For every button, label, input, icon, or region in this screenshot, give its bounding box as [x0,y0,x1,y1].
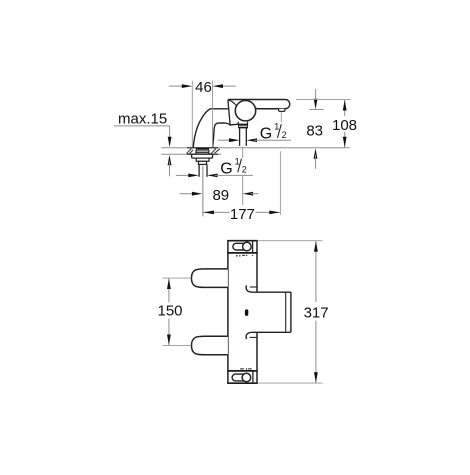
dim 83 arrow up [314,148,318,159]
dim 317 ext top [258,240,323,242]
deck top line [161,147,350,149]
spout bottom tick [250,336,257,338]
dim 46 ext left [191,81,193,148]
dim 317 arrow up [314,241,318,252]
aerator nub [279,109,285,112]
dim 317 line lower [315,321,317,384]
spout top tick [250,286,257,288]
svg-text:317: 317 [304,305,329,322]
svg-text:G: G [220,161,232,178]
G12 upper slash [278,124,282,138]
svg-text:108: 108 [332,117,357,134]
G12 upper right line [254,139,291,141]
dim 317 line upper [315,241,317,302]
bottom switch stadium [232,374,250,381]
pipe2 left line [239,128,241,146]
G12 lower left line [176,174,192,176]
dim 108 line lower [344,132,346,148]
dim 46 line left [169,85,185,87]
dim 108 arrow up [343,100,347,111]
dim 150 line upper [168,278,170,302]
svg-text:89: 89 [212,187,229,204]
dim 177 ext right lower [279,151,281,215]
bottom scale dashes [240,368,252,370]
dim 150 line lower [168,319,170,346]
shank right edge [208,150,210,154]
lever spout bar [228,100,290,109]
body tick mark [245,309,248,316]
body right edge upper [256,241,258,293]
spout tip inner line [285,293,287,332]
bottom cap bottom edge [227,382,258,384]
faucet body right profile [213,123,239,148]
hatch right2 [215,149,220,153]
nut under knob [238,124,248,128]
svg-text:2: 2 [282,130,287,140]
G12 upper left arrow [229,138,240,142]
dim 89 left tail [180,193,195,195]
locknut [196,158,209,161]
spout right edge [290,292,292,332]
fillet right of knob [256,107,260,110]
max.15 arrow down [168,137,172,148]
dim 177 ext right upper [280,112,282,123]
G12 upper left line [218,139,232,141]
body left edge [227,241,229,384]
svg-text:2: 2 [242,164,247,174]
body right edge lower [256,332,258,383]
nut highlight stripe [239,126,247,127]
pipe2 centerline lower [242,176,244,206]
dim 150 arrow up [167,279,171,290]
bottom cap inner vertical [252,371,254,383]
top scale dashes [236,255,253,256]
pipe1 left line [198,164,200,176]
pipe1 right line [206,164,208,176]
dim 89 right arrow [243,192,254,196]
G12 upper right arrow [247,138,258,142]
max.15 arrow up [168,155,172,166]
G12 lower slash [238,159,242,173]
svg-text:83: 83 [306,123,323,140]
dim 46 arrow left [182,84,193,88]
hatch right1 [211,149,216,154]
faucet body left profile [193,109,228,148]
cartridge face left edge [228,100,230,125]
svg-text:1: 1 [274,121,279,131]
dim 150 arrow down [167,335,171,346]
shank dark band [196,148,209,150]
dim 317 ext bottom [258,382,323,384]
spout bottom edge with curl [246,332,291,339]
pipe1 centerline [202,166,204,217]
hatch left1 [186,149,191,154]
bottom cap top edge [227,370,258,372]
bottom switch circle [242,373,251,382]
shank left edge [195,150,197,154]
dim 108 arrow down [343,137,347,148]
dim 46 line right [220,85,236,87]
dim 83 arrow down [314,99,318,110]
shank thread line1 [196,150,209,152]
svg-text:177: 177 [230,206,255,223]
svg-text:max.15: max.15 [118,110,167,127]
handle lower [191,336,227,355]
collar under knob [238,122,247,125]
top cap top edge [227,240,258,242]
G12 lower left arrow [188,174,199,178]
dim 150 ext top [163,277,192,279]
reducer [199,161,207,164]
dim 83 lower tail [315,155,317,169]
dim 46 ext right [212,81,214,148]
top cap inner vertical [252,241,254,253]
deck dark segment bottom [187,153,218,155]
dim 150 ext bottom [163,344,192,346]
dim 177 arrow right [269,211,280,215]
hatch left2 [189,150,193,154]
top cap bottom edge [227,252,258,254]
deck bottom line [161,153,221,155]
top switch stadium [233,243,251,250]
dim 317 arrow down [314,372,318,383]
shank thread line2 [196,152,209,154]
dim 89 left arrow [192,192,203,196]
dim 46 arrow right [213,84,224,88]
pipe2 centerline upper [242,147,244,159]
deck dark segment top [187,147,218,149]
svg-text:1: 1 [235,156,240,166]
cartridge face fillet [229,100,236,105]
dim 83 tick [309,108,323,110]
dim 177 arrow left [203,211,214,215]
handle upper [191,269,227,288]
top switch circle [243,242,252,251]
dim 89 right tail [251,193,259,195]
max.15 leader underline [114,125,170,127]
dim 108 ext line [296,99,351,101]
G12 lower right arrow [207,174,218,178]
dim 108 line upper [344,100,346,116]
G12 lower right line [215,174,253,176]
pipe2 right line [245,128,247,146]
dim 177 text bg [230,205,256,221]
dim 83 upper leader [315,89,317,103]
spout top edge with curl [246,285,291,292]
svg-text:46: 46 [195,79,212,96]
max.15 lower tail [169,162,171,177]
dim 177 line [203,211,280,213]
knob circle [235,101,255,121]
max.15 leader vertical [169,126,171,142]
svg-text:G: G [260,126,272,143]
washer below deck [192,154,213,158]
svg-text:150: 150 [157,303,182,320]
